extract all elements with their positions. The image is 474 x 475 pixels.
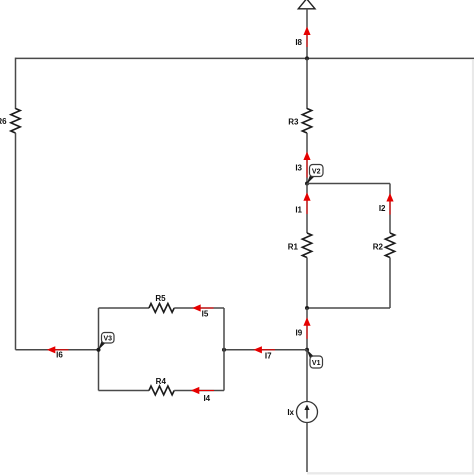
resistor R4	[149, 386, 174, 395]
resistor R2	[385, 233, 394, 258]
svg-text:V3: V3	[104, 336, 113, 343]
junction left loop right side	[222, 348, 226, 352]
current arrow I4	[191, 387, 214, 394]
left loop bottom wire right segment	[174, 390, 224, 392]
wire current source to bottom	[306, 423, 308, 473]
svg-text:I5: I5	[202, 310, 209, 319]
svg-text:I7: I7	[265, 352, 272, 361]
wire bottom rail to node V1	[306, 308, 308, 350]
left loop top wire right segment	[174, 307, 224, 309]
top rail wire	[16, 57, 474, 59]
current arrow I8	[303, 27, 310, 48]
middle column wire rail to R3	[306, 58, 308, 109]
left loop left vertical wire	[98, 308, 100, 391]
node V2 label tail	[307, 175, 315, 185]
svg-text:I8: I8	[295, 38, 302, 47]
svg-text:Ix: Ix	[287, 408, 294, 417]
node V3 label box	[102, 333, 115, 344]
top node triangle symbol	[298, 0, 315, 9]
left branch wire V2 down to R1	[306, 184, 308, 234]
svg-text:I2: I2	[379, 204, 386, 213]
junction bottom rail / middle column	[305, 306, 309, 310]
resistor R3	[302, 109, 311, 134]
svg-text:I9: I9	[296, 329, 303, 338]
svg-text:V1: V1	[312, 360, 321, 367]
node V1 label box	[310, 356, 323, 368]
right branch wire R2 to bottom rail	[389, 258, 391, 309]
wire node V1 down to current source	[306, 350, 308, 402]
svg-text:R4: R4	[156, 377, 167, 386]
left column wire upper	[15, 58, 17, 109]
junction top rail / middle column	[305, 56, 309, 60]
resistor R1	[302, 233, 311, 258]
left loop right vertical wire	[223, 308, 225, 391]
node V3 junction dot	[97, 348, 101, 352]
left column wire lower	[15, 133, 17, 350]
left loop top wire left segment	[99, 307, 150, 309]
svg-text:I3: I3	[295, 164, 302, 173]
wire left column to V3 node	[16, 349, 99, 351]
svg-text:I1: I1	[295, 206, 302, 215]
node V1 junction dot	[305, 348, 309, 352]
current arrow I9	[303, 317, 310, 339]
wire node V2 to right branch top	[307, 183, 390, 185]
node V2 junction dot	[305, 182, 309, 186]
svg-text:I6: I6	[56, 351, 63, 360]
resistor R5	[149, 304, 174, 313]
current arrow I6	[47, 346, 69, 353]
svg-text:R2: R2	[373, 243, 384, 252]
svg-text:V2: V2	[312, 168, 321, 175]
svg-text:I4: I4	[203, 394, 210, 403]
current arrow I1	[303, 192, 310, 214]
resistor R6	[11, 109, 20, 134]
svg-text:R1: R1	[288, 243, 299, 252]
current arrow I5	[192, 304, 213, 311]
node V1 label tail	[307, 349, 315, 359]
current arrow I3	[303, 152, 310, 178]
wire node V1 to left loop	[224, 349, 307, 351]
right return wire (faint, at canvas edge)	[472, 59, 474, 473]
left branch wire R1 to bottom rail	[306, 258, 308, 309]
left loop bottom wire left segment	[99, 390, 150, 392]
node V2 label box	[310, 165, 324, 177]
bottom return wire (faint, at canvas edge)	[307, 472, 474, 474]
current arrow I2	[386, 193, 393, 215]
right branch wire down to R2	[389, 184, 391, 234]
svg-text:R3: R3	[288, 118, 299, 127]
wire top triangle to top rail	[306, 9, 308, 59]
current source Ix	[297, 402, 318, 423]
node V3 label tail	[98, 341, 106, 351]
svg-text:R6: R6	[0, 117, 7, 126]
current arrow I7	[253, 346, 275, 353]
bottom rail of R1R2 loop	[307, 307, 390, 309]
wire R3 to node V2	[306, 133, 308, 184]
svg-text:R5: R5	[155, 294, 166, 303]
